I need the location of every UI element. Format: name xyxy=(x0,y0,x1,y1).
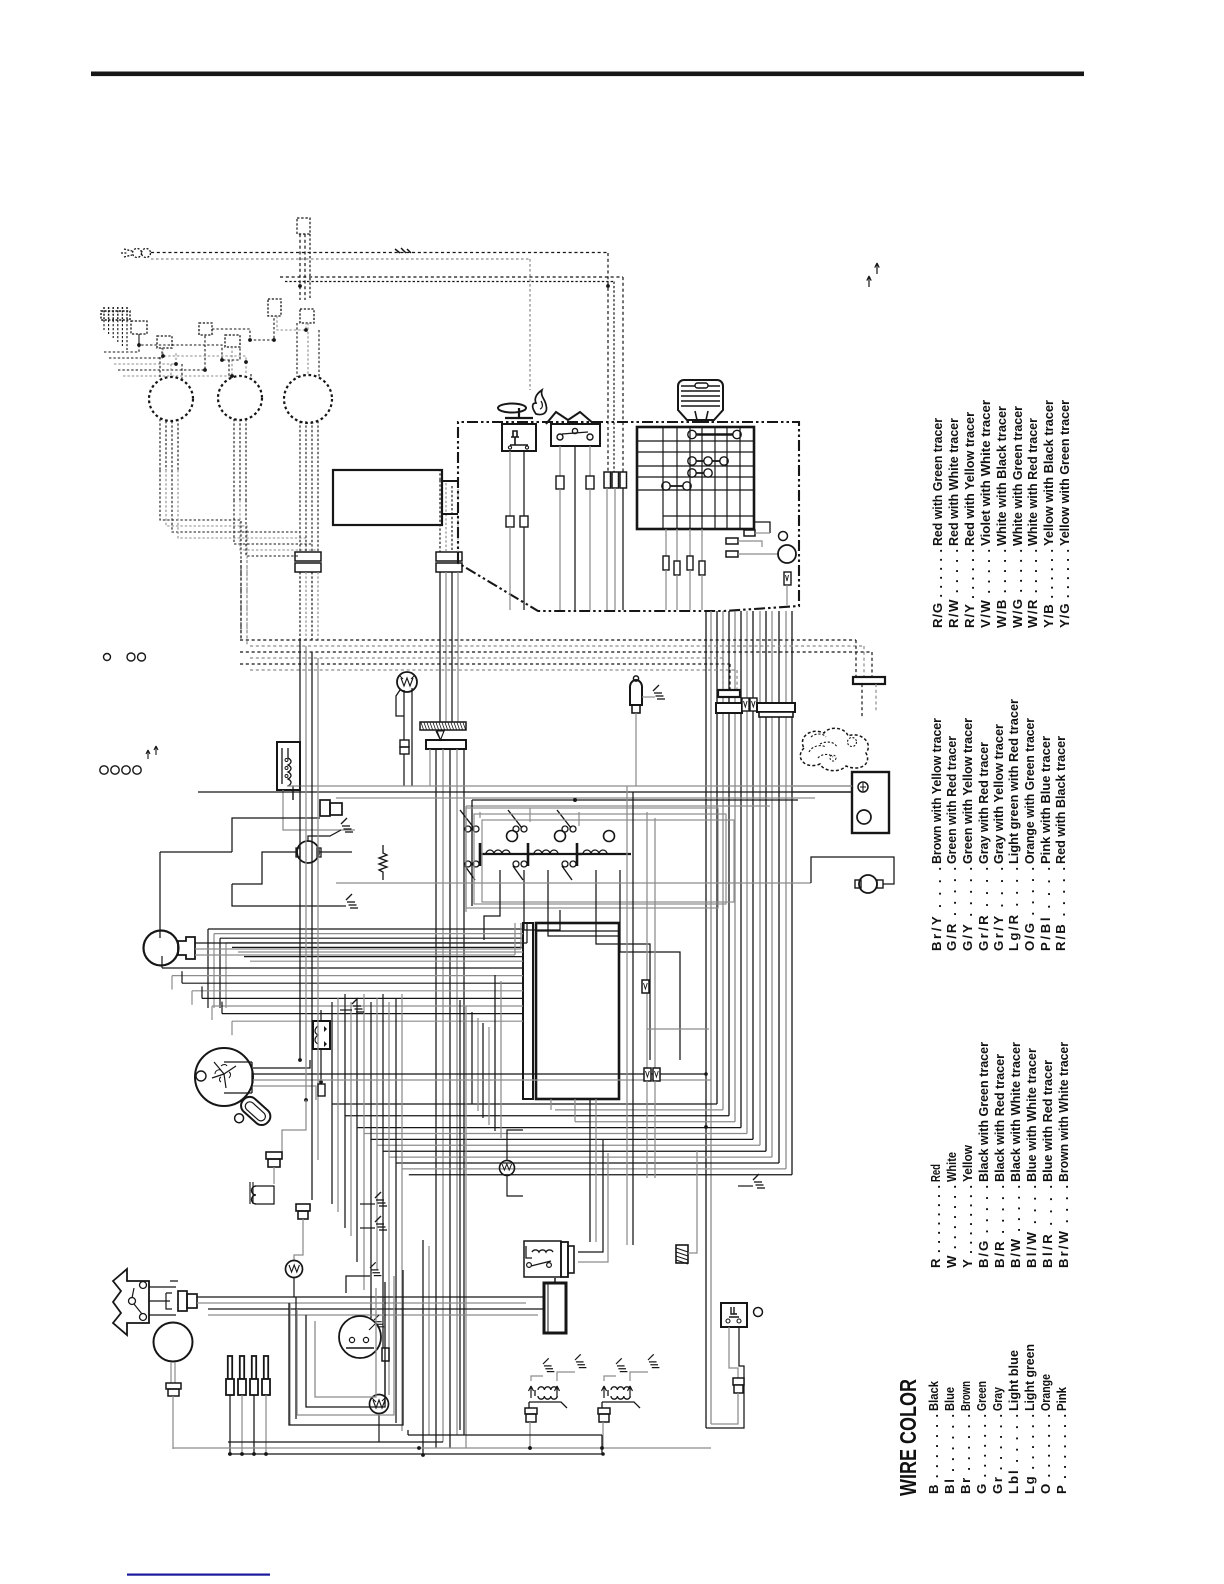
junction dot brake pair xyxy=(704,1125,708,1129)
fuse box grid columns xyxy=(662,427,664,529)
spark plugs xyxy=(228,1356,232,1379)
pilot circle small xyxy=(779,532,788,541)
svg-text:O . . . . . . .: O . . . . . . . xyxy=(1038,1414,1053,1494)
diode block xyxy=(313,1021,330,1049)
svg-text:B/W . . . . .: B/W . . . . . xyxy=(1008,1185,1023,1268)
fuse box grid rows xyxy=(637,440,754,442)
dashed leads into lamp 1 xyxy=(159,357,161,379)
spare bullet terminals row2 xyxy=(100,766,108,774)
wire dashed horizontal pair (headlamp loop) xyxy=(280,276,623,278)
brake loop inner gray xyxy=(711,1393,738,1424)
alternator block xyxy=(333,470,442,525)
svg-text:Lbl . . . . .: Lbl . . . . . xyxy=(1006,1414,1021,1494)
splice marks on feed wire xyxy=(395,248,411,253)
connector stack mid (dashed/solid) xyxy=(436,552,462,561)
headlight coupler (dashed) xyxy=(121,249,151,258)
cutoff relay body xyxy=(532,1250,553,1252)
ground mid a xyxy=(352,998,364,1012)
loom wide connector bar xyxy=(757,703,795,712)
flasher relay arrow box xyxy=(113,1269,149,1335)
relay unit 1 xyxy=(507,831,518,842)
meter lamp 2 (dashed circle) xyxy=(218,376,262,420)
points resistor bulb xyxy=(370,1395,389,1414)
bullet connector c xyxy=(726,551,738,557)
bundle A drops to loom connector xyxy=(722,658,724,689)
W bullet pair on loom xyxy=(742,698,749,711)
svg-text:Gr . . . . . .: Gr . . . . . . xyxy=(990,1414,1005,1494)
bulb lead connectors xyxy=(400,740,409,747)
ignition lock cylinder xyxy=(229,1094,273,1138)
fuel sender hatched cap xyxy=(420,722,466,730)
main switch flame mark xyxy=(533,390,547,415)
bullet connector mid pair xyxy=(644,1068,651,1081)
meter lamp 1 (dashed circle) xyxy=(149,377,193,421)
relay lower outlet wires xyxy=(484,870,500,940)
source coil symbol xyxy=(252,1186,257,1204)
wire dashed comb tails xyxy=(103,320,105,330)
svg-text:Orange: Orange xyxy=(1038,1374,1053,1411)
gray jog to brake pair xyxy=(647,1028,709,1030)
svg-text:Blue with Red tracer: Blue with Red tracer xyxy=(1040,1060,1055,1182)
engine enclosure outline (chain line) xyxy=(458,422,799,611)
svg-text:G/Y . . . . .: G/Y . . . . . xyxy=(960,867,975,951)
svg-text:Bl/W . . . .: Bl/W . . . . xyxy=(1024,1185,1039,1268)
svg-text:Gray with Yellow tracer: Gray with Yellow tracer xyxy=(991,724,1006,864)
svg-text:B/R . . . . .: B/R . . . . . xyxy=(992,1185,1007,1268)
svg-text:W/G . . . . .: W/G . . . . . xyxy=(1010,549,1025,628)
staircase upper ties xyxy=(331,1002,333,1010)
svg-text:G/R . . . . .: G/R . . . . . xyxy=(944,867,959,951)
dashed feed to connector stack mid xyxy=(439,480,441,552)
svg-text:Black with Red tracer: Black with Red tracer xyxy=(992,1054,1007,1182)
svg-text:Red with White tracer: Red with White tracer xyxy=(946,418,961,546)
ground mid b xyxy=(375,1192,387,1206)
tail light feed wires xyxy=(792,785,852,787)
svg-text:R/G . . . . . .: R/G . . . . . . xyxy=(930,549,945,628)
left frame wire xyxy=(232,818,320,852)
wire bundle mid vertical long xyxy=(435,749,437,1448)
ground below motor xyxy=(340,905,346,907)
indicator bulb w xyxy=(397,672,417,692)
wire bundle main loom vertical xyxy=(705,611,707,1428)
dashed pair below coupler xyxy=(861,684,863,718)
headlight leads xyxy=(195,942,527,944)
connector block A (dashed) xyxy=(131,321,147,334)
relay frame boxes xyxy=(466,808,718,908)
rear frame dashed blob xyxy=(800,728,868,770)
connector block E (dashed) xyxy=(268,299,281,316)
legend block 1 (tracer colors R-Y) xyxy=(930,400,1072,628)
headlight lead drops xyxy=(526,923,528,943)
flasher connector xyxy=(178,1291,187,1311)
ignition switch contact star xyxy=(212,1062,236,1088)
svg-text:Violet with White tracer: Violet with White tracer xyxy=(978,400,993,546)
pilot circle big xyxy=(778,545,796,563)
svg-text:Red: Red xyxy=(928,1164,943,1182)
fuse link pair B xyxy=(662,482,670,490)
kill switch inline connectors xyxy=(556,476,564,489)
svg-text:P . . . . . . .: P . . . . . . . xyxy=(1054,1414,1069,1494)
svg-text:W/B . . . . .: W/B . . . . . xyxy=(994,549,1009,628)
horn bottom circle xyxy=(154,1323,193,1362)
legend block 3 (solid + black/blue tracers) xyxy=(928,1042,1071,1268)
svg-text:R . . . . . . . .: R . . . . . . . . xyxy=(928,1185,943,1268)
connector stack left (dashed/solid) xyxy=(295,552,321,561)
spare bullet terminals row1 xyxy=(104,654,111,661)
bullet on column xyxy=(318,1084,325,1096)
diode leads xyxy=(320,1010,322,1021)
brake light switch xyxy=(721,1303,747,1327)
wire pair mid-right vertical xyxy=(626,786,628,1245)
svg-text:Lg . . . . . .: Lg . . . . . . xyxy=(1022,1414,1037,1494)
hatched coupler riser xyxy=(688,1150,697,1253)
fuel gauge leads xyxy=(282,790,284,812)
relay unit 2 xyxy=(555,831,566,842)
svg-text:B/G . . . . .: B/G . . . . . xyxy=(976,1185,991,1268)
fuse box grid frame xyxy=(637,427,754,529)
ignition coil 1 xyxy=(538,1387,557,1399)
dashed tails below lamp 2 xyxy=(233,419,235,500)
ignition switch circle xyxy=(195,1048,253,1106)
flasher feed wire xyxy=(336,882,811,884)
wire pair right of cdi xyxy=(646,812,648,1070)
svg-text:V/W . . . . .: V/W . . . . . xyxy=(978,549,993,628)
svg-text:Black with Green tracer: Black with Green tracer xyxy=(976,1042,991,1182)
cdi side bar xyxy=(523,923,533,1099)
cdi unit box xyxy=(536,923,619,1099)
ignition switch feed wires xyxy=(253,1060,310,1068)
svg-text:Light green with Red tracer: Light green with Red tracer xyxy=(1006,699,1021,864)
plug junction dots xyxy=(228,1452,232,1456)
connector block C (dashed) xyxy=(199,323,212,335)
dashed meter interconnect wires xyxy=(104,334,139,352)
loom connector bar lower xyxy=(716,703,742,713)
svg-text:Y/B . . . . . .: Y/B . . . . . . xyxy=(1041,549,1056,628)
wire dashed feed lower (gray) xyxy=(151,258,530,260)
fuse link row1 xyxy=(688,430,696,438)
bundle B hooks to cdi bottom xyxy=(550,1099,552,1110)
flasher loop xyxy=(811,857,894,884)
wire drops fan to bundle B xyxy=(459,1000,461,1430)
fuse link pair A xyxy=(688,469,696,477)
connector trio at case top xyxy=(604,472,611,488)
hatched coupler xyxy=(676,1245,688,1263)
svg-text:Lg/R . . . .: Lg/R . . . . xyxy=(1006,867,1021,951)
connector block D (dashed) xyxy=(225,335,240,347)
legend block 4 (base colors) xyxy=(926,1344,1069,1494)
wire fan lower band xyxy=(162,967,523,969)
license lamp circle (flasher relay) xyxy=(859,875,877,893)
dashed tails below lamp 3 xyxy=(299,421,301,552)
cutoff relay connector bars xyxy=(561,1242,568,1277)
alternator stub wires xyxy=(442,480,458,482)
svg-text:R/Y . . . . . .: R/Y . . . . . . xyxy=(962,549,977,628)
ignition switch housing lines xyxy=(224,1062,252,1093)
gauge wire to right (black) xyxy=(198,791,852,793)
wire bundle left column xyxy=(299,640,301,1060)
inline connector pair mid-left xyxy=(320,800,330,816)
svg-text:W . . . . . . .: W . . . . . . . xyxy=(944,1185,959,1268)
svg-text:Bl . . . . . .: Bl . . . . . . xyxy=(942,1414,957,1494)
solenoid ground xyxy=(642,696,655,698)
svg-text:Black with White tracer: Black with White tracer xyxy=(1008,1042,1023,1182)
motor leads + grounds xyxy=(308,830,341,841)
fuel sender body bar xyxy=(426,740,466,749)
rear harness coupler bar xyxy=(853,677,885,684)
wire onion rings around points xyxy=(289,1270,403,1425)
svg-text:White with Black tracer: White with Black tracer xyxy=(994,406,1009,546)
battery xyxy=(544,1283,566,1333)
wire dashed feed upper xyxy=(151,252,608,254)
main switch leads xyxy=(509,451,511,516)
svg-text:Pink: Pink xyxy=(1054,1386,1069,1411)
mid bundle bottom corners xyxy=(422,1240,424,1455)
svg-text:Black: Black xyxy=(926,1380,941,1411)
connector trio leads down xyxy=(606,488,608,610)
horn bottom stem xyxy=(170,1362,172,1383)
junction dots on dashed harness xyxy=(137,343,141,347)
column junction dots xyxy=(298,1058,302,1062)
main switch inline connectors xyxy=(506,516,514,527)
svg-text:G . . . . . . .: G . . . . . . . xyxy=(974,1414,989,1494)
svg-text:Brown: Brown xyxy=(958,1381,973,1411)
svg-text:R/W . . . . .: R/W . . . . . xyxy=(946,549,961,628)
inline connector pair xyxy=(266,1152,282,1159)
starter solenoid body xyxy=(630,680,642,705)
svg-text:P/Bl . . . .: P/Bl . . . . xyxy=(1038,867,1053,951)
ground mid c xyxy=(375,1216,387,1230)
cancel motor xyxy=(297,841,319,863)
battery leads xyxy=(554,1278,556,1283)
wire dashed drops into engine case xyxy=(607,253,609,472)
svg-text:White with Green tracer: White with Green tracer xyxy=(1010,406,1025,546)
wire dashed bundle A horizontal xyxy=(240,639,856,641)
left riser bundle xyxy=(207,929,209,1008)
fuse link trio xyxy=(688,457,696,465)
resistor bulb mid (near cdi) xyxy=(500,1161,515,1176)
multi-pin comb connector (dashed) xyxy=(101,307,130,320)
wire dashed drop to main switch xyxy=(529,259,531,390)
ground above points xyxy=(370,1262,381,1275)
headlight socket xyxy=(178,937,195,959)
bullet connector a xyxy=(744,530,755,536)
svg-text:Yellow: Yellow xyxy=(960,1144,975,1182)
condenser xyxy=(382,1348,389,1361)
tiny arrow marks left xyxy=(146,750,150,759)
mid pair continue below bullets xyxy=(646,1081,648,1178)
relay top feed wires xyxy=(479,812,481,818)
svg-text:Blue: Blue xyxy=(942,1387,957,1411)
svg-text:Y . . . . . . . .: Y . . . . . . . . xyxy=(960,1185,975,1268)
svg-text:Brown with White tracer: Brown with White tracer xyxy=(1056,1042,1071,1182)
fuse box feed wires xyxy=(665,529,667,556)
svg-text:R/B . . . . .: R/B . . . . . xyxy=(1053,867,1068,951)
fuel gauge body xyxy=(277,742,300,790)
wire dashed vertical pair from connector xyxy=(299,234,301,300)
svg-text:W/R . . . . .: W/R . . . . . xyxy=(1025,549,1040,628)
grid right jumper xyxy=(754,522,770,533)
tail light box xyxy=(852,772,889,833)
coil tail wires xyxy=(529,1422,531,1448)
horn stem xyxy=(695,411,708,420)
wire bundle mid vertical solid xyxy=(439,572,441,722)
page top rule xyxy=(91,72,1084,77)
gauge wire to right (gray) xyxy=(287,785,852,787)
svg-text:Pink with Blue tracer: Pink with Blue tracer xyxy=(1038,736,1053,864)
fuel sender leads xyxy=(429,749,431,786)
svg-text:Brown with Yellow tracer: Brown with Yellow tracer xyxy=(929,718,944,864)
dashed leads into lamp 2 xyxy=(228,360,230,378)
svg-text:Red with Black tracer: Red with Black tracer xyxy=(1053,736,1068,864)
meter lamp 3 (dashed circle) xyxy=(284,375,332,423)
main switch body xyxy=(502,424,536,451)
relay frame top lines xyxy=(472,799,798,801)
flasher leads xyxy=(149,1286,176,1288)
points loop wire xyxy=(346,1276,370,1293)
kill switch leads xyxy=(559,446,561,476)
wire staircase left legs xyxy=(331,1010,333,1204)
wire fan into cdi left (upper) xyxy=(208,928,523,930)
fuse feed inline fuses xyxy=(663,556,669,570)
bottom bus wires xyxy=(408,1434,602,1436)
svg-text:Y/G . . . . . .: Y/G . . . . . . xyxy=(1057,549,1072,628)
svg-text:Red with Yellow tracer: Red with Yellow tracer xyxy=(962,412,977,546)
legend block 2 (tracer colors Br-R) xyxy=(929,699,1068,951)
svg-text:Light green: Light green xyxy=(1022,1344,1037,1411)
headlight bulb xyxy=(144,931,179,966)
relay unit 3 xyxy=(604,831,615,842)
tiny arrow marks upper right xyxy=(867,276,871,287)
bullet connector W xyxy=(784,572,791,585)
svg-text:Red with Green tracer: Red with Green tracer xyxy=(930,418,945,546)
bullet connector mid single xyxy=(642,980,649,993)
bundle A left risers xyxy=(240,560,242,640)
flasher output wires xyxy=(197,1296,543,1298)
svg-text:Gray: Gray xyxy=(990,1386,1005,1411)
svg-text:Green: Green xyxy=(974,1381,989,1411)
kill switch body xyxy=(551,424,600,446)
svg-text:Br . . . . . .: Br . . . . . . xyxy=(958,1414,973,1494)
svg-text:Yellow with Black tracer: Yellow with Black tracer xyxy=(1041,400,1056,546)
dashed leads into lamp 3 xyxy=(296,323,298,377)
svg-text:Light blue: Light blue xyxy=(1006,1350,1021,1411)
relay feed legs from bundle B xyxy=(578,1144,603,1252)
connector (dashed) above meters xyxy=(297,218,310,234)
bullet connector b xyxy=(726,538,738,544)
connector block F (dashed) xyxy=(300,309,314,323)
svg-text:Gray with Red tracer: Gray with Red tracer xyxy=(976,742,991,864)
svg-text:Yellow with Green tracer: Yellow with Green tracer xyxy=(1057,400,1072,546)
loom connector bar upper xyxy=(718,690,740,697)
ground low mid xyxy=(753,1174,765,1188)
wire bundle B horizontals xyxy=(332,1103,717,1105)
footer blue line xyxy=(127,1574,270,1576)
svg-text:Bl/R . . . .: Bl/R . . . . xyxy=(1040,1185,1055,1268)
horn body xyxy=(678,380,723,420)
svg-text:Blue with White tracer: Blue with White tracer xyxy=(1024,1048,1039,1182)
wire bundle left vertical (to lower harness) xyxy=(299,572,301,640)
cdi outlet pair to relay bars xyxy=(589,1099,591,1242)
ignition coil 2 xyxy=(611,1387,630,1399)
svg-text:WIRE COLOR: WIRE COLOR xyxy=(895,1379,921,1496)
connector block B (dashed) xyxy=(157,336,172,348)
brake lead connector xyxy=(733,1378,744,1385)
brake switch leads loop xyxy=(729,1327,738,1378)
bulb leads xyxy=(396,690,404,716)
svg-text:Orange with Green tracer: Orange with Green tracer xyxy=(1022,718,1037,864)
svg-text:White: White xyxy=(944,1152,959,1182)
main switch key lever xyxy=(505,408,533,418)
svg-text:Green with Yellow tracer: Green with Yellow tracer xyxy=(960,718,975,864)
bottom bus dots xyxy=(417,1446,421,1450)
horn connector xyxy=(166,1383,181,1389)
svg-text:O/G . . . . .: O/G . . . . . xyxy=(1022,867,1037,951)
svg-text:Br/W . . . .: Br/W . . . . xyxy=(1056,1185,1071,1268)
svg-text:White with Red tracer: White with Red tracer xyxy=(1025,418,1040,546)
flasher drop wires xyxy=(289,1303,291,1425)
resistor bulb upper-left xyxy=(286,1261,303,1278)
dashed tails below lamp 1 xyxy=(159,419,161,470)
contact breaker circle xyxy=(339,1316,381,1358)
bundle A right drops to coupler xyxy=(855,640,857,677)
connector below xyxy=(296,1204,310,1211)
resistor zigzag xyxy=(379,845,387,880)
pickup coil wires xyxy=(282,1100,306,1152)
gauge wire lower (gray) xyxy=(336,797,815,799)
svg-text:Green with Red tracer: Green with Red tracer xyxy=(944,736,959,864)
solenoid stem wire xyxy=(635,713,637,786)
